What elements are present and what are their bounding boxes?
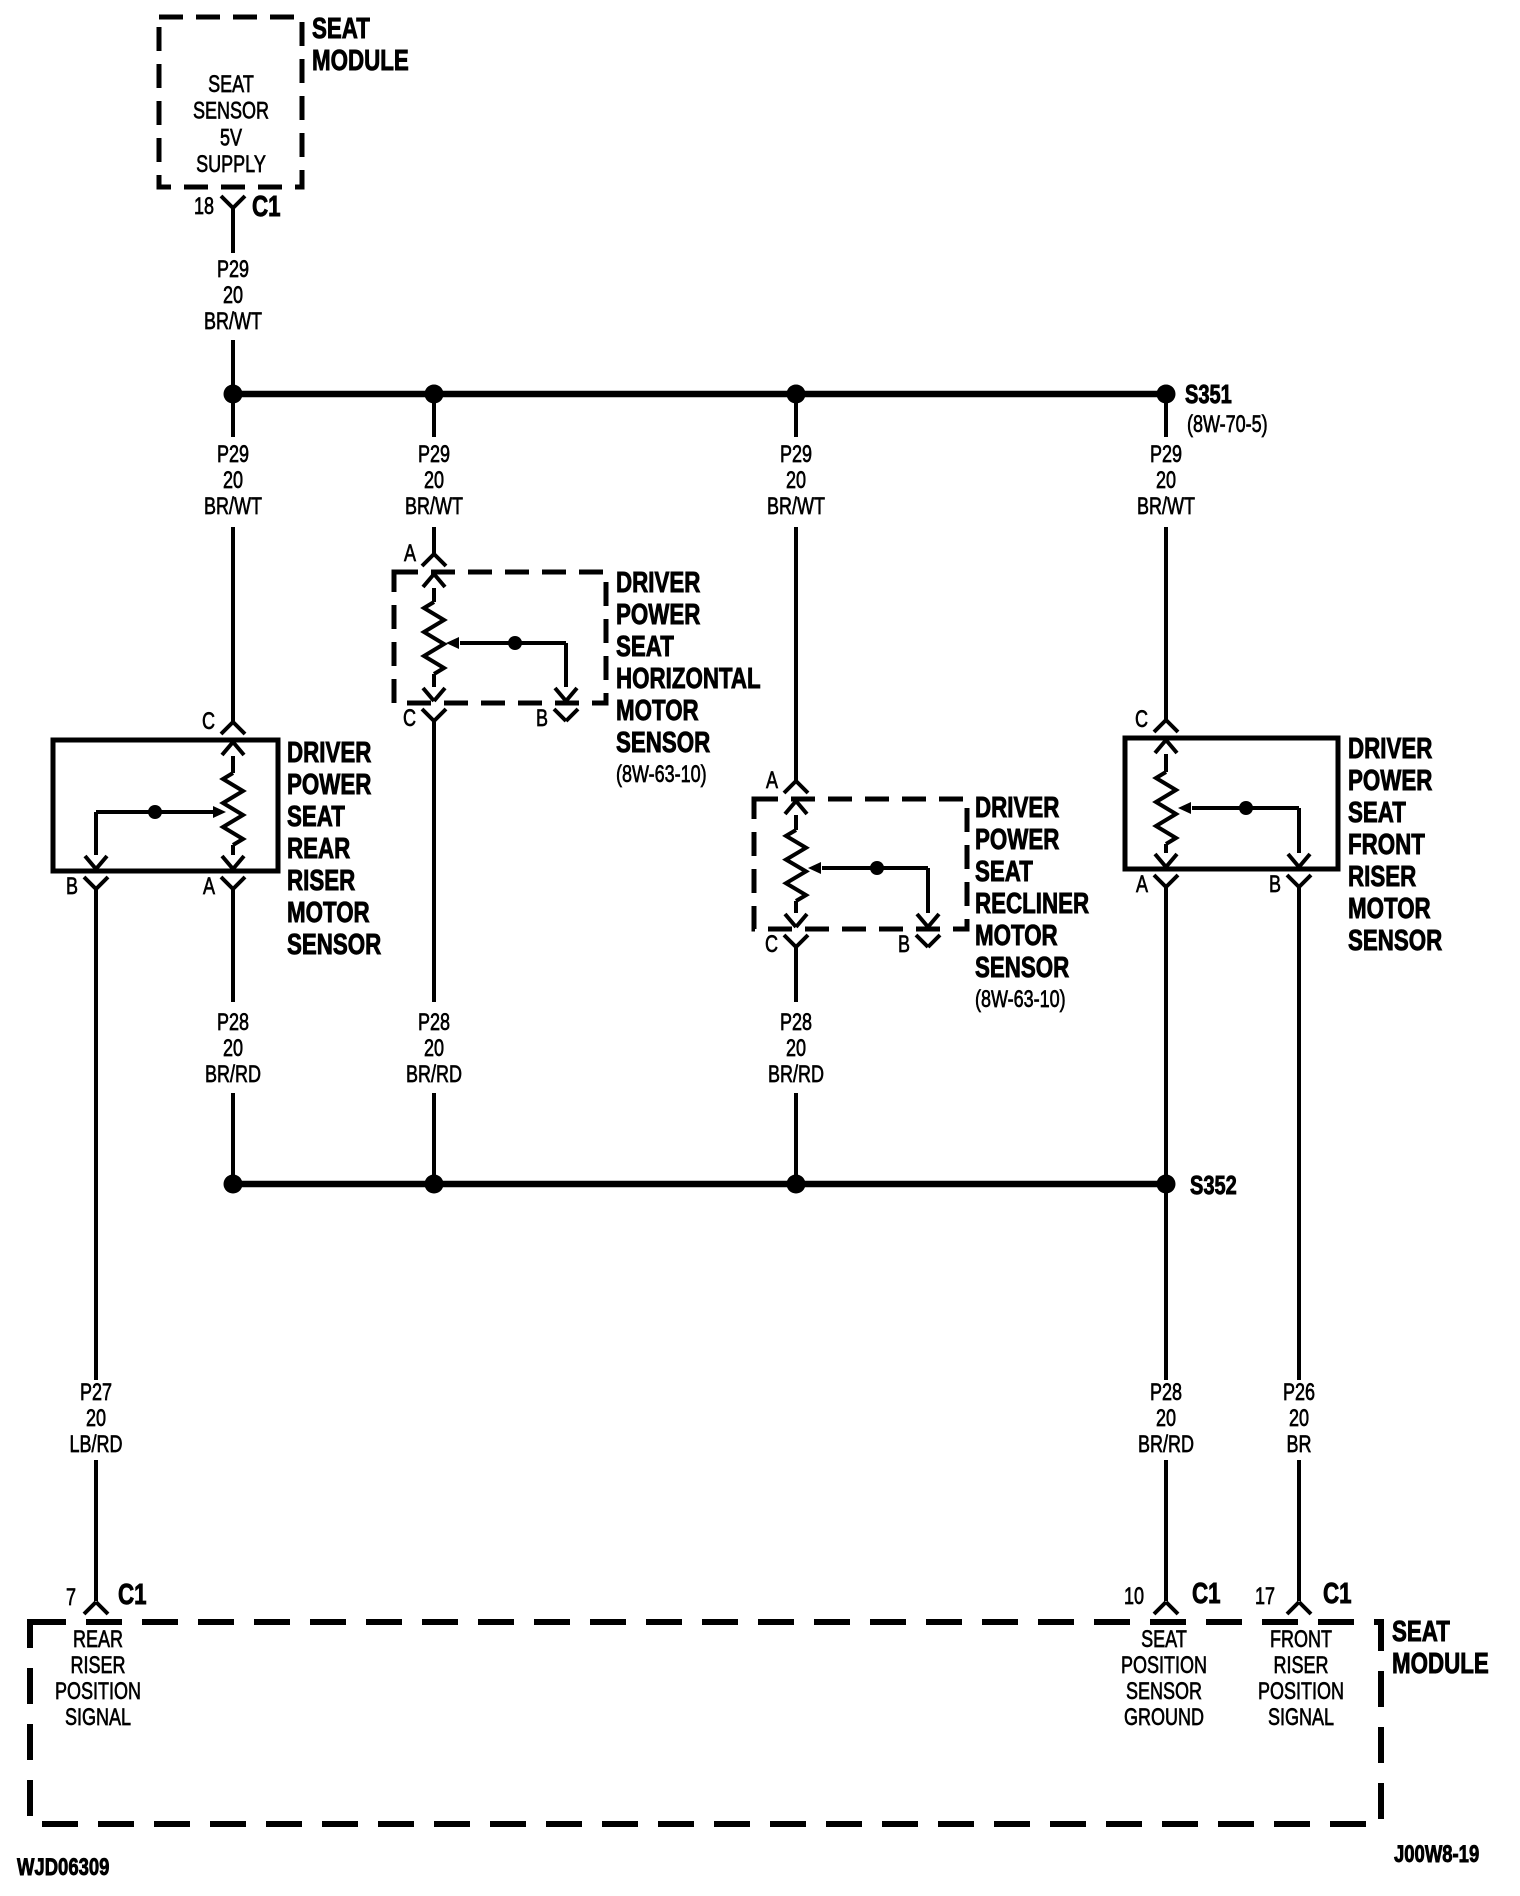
connector fork A (front riser sensor) [1154, 875, 1166, 887]
connector fork pin 7 [84, 1602, 96, 1614]
svg-text:POWER: POWER [975, 824, 1060, 855]
wire col1 A to S352 [231, 905, 235, 1002]
svg-text:P27: P27 [80, 1380, 112, 1406]
potentiometer resistor (recliner sensor) [785, 801, 796, 814]
svg-text:SEAT: SEAT [1348, 797, 1406, 828]
wiper arm (recliner sensor) [822, 866, 928, 870]
connector fork C (horizontal sensor) [422, 709, 434, 721]
svg-text:RISER: RISER [71, 1653, 126, 1679]
potentiometer resistor (front riser sensor) [1155, 740, 1166, 753]
svg-text:P29: P29 [217, 442, 249, 468]
rear riser motor sensor box [53, 740, 278, 871]
seat module (bottom) dashed box [30, 1622, 1381, 1824]
svg-text:FRONT: FRONT [1348, 829, 1425, 860]
junction node S352 [1157, 1175, 1176, 1194]
wire col4 A through S352 to pin 10 [1164, 903, 1168, 1184]
svg-text:20: 20 [1156, 468, 1176, 494]
connector fork B (recliner sensor) [916, 935, 928, 947]
svg-text:18: 18 [194, 194, 214, 220]
svg-text:17: 17 [1255, 1584, 1275, 1610]
svg-text:SEAT: SEAT [1392, 1616, 1450, 1647]
svg-text:DRIVER: DRIVER [1348, 733, 1433, 764]
svg-text:BR/WT: BR/WT [204, 309, 262, 335]
connector fork pin 17 [1287, 1602, 1299, 1614]
svg-text:SENSOR: SENSOR [1348, 925, 1443, 956]
svg-text:C: C [1135, 707, 1148, 733]
svg-text:RISER: RISER [287, 865, 355, 896]
wiper junction dot (front riser sensor) [1239, 801, 1253, 815]
svg-text:REAR: REAR [287, 833, 351, 864]
wiper junction dot (horizontal sensor) [508, 636, 522, 650]
svg-text:P28: P28 [418, 1010, 450, 1036]
svg-text:RISER: RISER [1274, 1653, 1329, 1679]
junction node on S352 at col 1 [224, 1175, 243, 1194]
svg-text:C1: C1 [1192, 1578, 1221, 1609]
svg-text:SUPPLY: SUPPLY [196, 152, 266, 178]
junction node on S352 at col 2 [425, 1175, 444, 1194]
svg-text:C: C [202, 709, 215, 735]
svg-text:SEAT: SEAT [1141, 1627, 1187, 1653]
svg-text:J00W8-19: J00W8-19 [1394, 1841, 1479, 1868]
svg-text:A: A [766, 768, 779, 794]
connector fork A (recliner sensor) [784, 781, 796, 793]
wire col4 to front riser sensor [1164, 527, 1168, 720]
wiper arm (rear riser sensor) [96, 810, 214, 814]
svg-text:BR/RD: BR/RD [205, 1062, 261, 1088]
connector fork B (rear riser sensor) [84, 877, 96, 889]
connector fork C (front riser sensor) [1154, 720, 1166, 732]
svg-text:P28: P28 [780, 1010, 812, 1036]
svg-text:BR/WT: BR/WT [767, 494, 825, 520]
svg-text:(8W-63-10): (8W-63-10) [616, 762, 707, 788]
wire B rear riser to seat module pin 7 [94, 905, 98, 1380]
wiper junction dot (rear riser sensor) [148, 805, 162, 819]
svg-text:S351: S351 [1185, 379, 1232, 408]
svg-text:SENSOR: SENSOR [193, 98, 269, 124]
wire stub below S351 x=796 [794, 394, 798, 437]
svg-text:BR: BR [1286, 1432, 1311, 1458]
svg-text:C1: C1 [252, 191, 281, 222]
svg-text:SEAT: SEAT [975, 856, 1033, 887]
svg-text:A: A [404, 541, 417, 567]
svg-text:BR/WT: BR/WT [405, 494, 463, 520]
connector fork pin 10 [1154, 1602, 1166, 1614]
svg-text:FRONT: FRONT [1270, 1627, 1332, 1653]
svg-text:RISER: RISER [1348, 861, 1416, 892]
junction node on S351 at col 2 [425, 385, 444, 404]
svg-text:BR/WT: BR/WT [204, 494, 262, 520]
wire stub below S351 x=434 [432, 394, 436, 437]
svg-text:SEAT: SEAT [616, 631, 674, 662]
wiper drop wire to B (horizontal sensor) [564, 643, 568, 687]
wire col1 to rear riser sensor [231, 527, 235, 722]
recliner motor sensor dashed box [754, 799, 967, 929]
wiper arm (horizontal sensor) [460, 641, 566, 645]
svg-text:P26: P26 [1283, 1380, 1315, 1406]
svg-text:POSITION: POSITION [1258, 1679, 1344, 1705]
svg-text:S352: S352 [1190, 1170, 1237, 1199]
svg-text:P29: P29 [780, 442, 812, 468]
svg-text:(8W-63-10): (8W-63-10) [975, 987, 1066, 1013]
svg-text:BR/RD: BR/RD [406, 1062, 462, 1088]
svg-text:MOTOR: MOTOR [975, 920, 1058, 951]
potentiometer resistor (rear riser sensor) [222, 742, 233, 755]
svg-text:POSITION: POSITION [55, 1679, 141, 1705]
wire col2 C to S352 [432, 737, 436, 1002]
front riser motor sensor box [1125, 738, 1338, 869]
svg-text:C: C [403, 706, 416, 732]
svg-text:C1: C1 [1323, 1578, 1352, 1609]
svg-text:POWER: POWER [616, 599, 701, 630]
junction node S351 [1157, 385, 1176, 404]
svg-text:HORIZONTAL: HORIZONTAL [616, 663, 761, 694]
svg-text:20: 20 [1289, 1406, 1309, 1432]
svg-text:SENSOR: SENSOR [1126, 1679, 1202, 1705]
svg-text:P29: P29 [1150, 442, 1182, 468]
connector fork B (front riser sensor) [1287, 875, 1299, 887]
svg-text:POWER: POWER [1348, 765, 1433, 796]
junction node on S352 at col 3 [787, 1175, 806, 1194]
svg-text:P29: P29 [418, 442, 450, 468]
svg-text:SIGNAL: SIGNAL [65, 1705, 131, 1731]
svg-text:MOTOR: MOTOR [616, 695, 699, 726]
wire col3 C to S352 [794, 963, 798, 1002]
svg-text:20: 20 [424, 468, 444, 494]
svg-text:SEAT: SEAT [287, 801, 345, 832]
bus wire S351 [233, 391, 1166, 398]
svg-text:10: 10 [1124, 1584, 1144, 1610]
svg-text:B: B [1269, 872, 1281, 898]
wiper drop wire to B (front riser sensor) [1297, 808, 1301, 853]
svg-text:C: C [765, 932, 778, 958]
wire col3 to recliner sensor [794, 527, 798, 781]
svg-text:5V: 5V [220, 125, 243, 151]
junction node on S351 at col 1 [224, 385, 243, 404]
svg-text:C1: C1 [118, 1579, 147, 1610]
svg-text:SENSOR: SENSOR [287, 929, 382, 960]
potentiometer resistor (horizontal sensor) [423, 574, 434, 587]
wiper junction dot (recliner sensor) [870, 861, 884, 875]
svg-text:20: 20 [86, 1406, 106, 1432]
svg-text:LB/RD: LB/RD [70, 1432, 123, 1458]
svg-text:DRIVER: DRIVER [616, 567, 701, 598]
svg-text:P29: P29 [217, 257, 249, 283]
svg-text:BR/RD: BR/RD [768, 1062, 824, 1088]
svg-text:(8W-70-5): (8W-70-5) [1187, 412, 1268, 438]
svg-text:DRIVER: DRIVER [975, 792, 1060, 823]
svg-text:20: 20 [1156, 1406, 1176, 1432]
seat module (top) dashed box [159, 17, 302, 187]
wire stub below S351 x=233 [231, 394, 235, 437]
svg-text:SENSOR: SENSOR [975, 952, 1070, 983]
svg-text:SENSOR: SENSOR [616, 727, 711, 758]
connector C1 fork (pin 18) [221, 196, 233, 208]
wiper drop wire to B (recliner sensor) [926, 868, 930, 913]
svg-text:REAR: REAR [73, 1627, 123, 1653]
wire col2 to horizontal sensor [432, 527, 436, 554]
svg-text:20: 20 [424, 1036, 444, 1062]
svg-text:SEAT: SEAT [312, 13, 370, 44]
svg-text:P28: P28 [217, 1010, 249, 1036]
svg-text:A: A [203, 874, 216, 900]
svg-text:SIGNAL: SIGNAL [1268, 1705, 1334, 1731]
connector fork C (rear riser sensor) [221, 722, 233, 734]
svg-text:POSITION: POSITION [1121, 1653, 1207, 1679]
svg-text:MOTOR: MOTOR [1348, 893, 1431, 924]
svg-text:B: B [898, 932, 910, 958]
wire col4 below S352 [1164, 1184, 1168, 1380]
svg-text:20: 20 [786, 468, 806, 494]
connector fork A (rear riser sensor) [221, 877, 233, 889]
svg-text:B: B [66, 874, 78, 900]
svg-text:A: A [1136, 872, 1149, 898]
wire B front riser to seat module pin 17 [1297, 903, 1301, 1380]
svg-text:RECLINER: RECLINER [975, 888, 1089, 919]
svg-text:20: 20 [223, 1036, 243, 1062]
svg-text:20: 20 [786, 1036, 806, 1062]
svg-text:7: 7 [66, 1585, 76, 1611]
svg-text:20: 20 [223, 468, 243, 494]
svg-text:POWER: POWER [287, 769, 372, 800]
wiper arm (front riser sensor) [1192, 806, 1299, 810]
junction node on S351 at col 3 [787, 385, 806, 404]
svg-text:MOTOR: MOTOR [287, 897, 370, 928]
connector fork C (recliner sensor) [784, 935, 796, 947]
wire stub below S351 x=1166 [1164, 394, 1168, 437]
svg-text:P28: P28 [1150, 1380, 1182, 1406]
svg-text:GROUND: GROUND [1124, 1705, 1204, 1731]
svg-text:MODULE: MODULE [1392, 1648, 1489, 1679]
svg-text:WJD06309: WJD06309 [17, 1854, 109, 1881]
connector fork B (horizontal sensor) [554, 709, 566, 721]
bus wire S352 [233, 1181, 1166, 1188]
connector fork A (horizontal sensor) [422, 554, 434, 566]
svg-text:MODULE: MODULE [312, 45, 409, 76]
wiper drop wire to B (rear riser sensor) [94, 812, 98, 855]
svg-text:20: 20 [223, 283, 243, 309]
svg-text:DRIVER: DRIVER [287, 737, 372, 768]
wire P29 from seat module to S351 [231, 340, 235, 394]
svg-text:SEAT: SEAT [208, 72, 254, 98]
horizontal motor sensor dashed box [394, 572, 606, 703]
svg-text:BR/RD: BR/RD [1138, 1432, 1194, 1458]
svg-text:B: B [536, 706, 548, 732]
svg-text:BR/WT: BR/WT [1137, 494, 1195, 520]
